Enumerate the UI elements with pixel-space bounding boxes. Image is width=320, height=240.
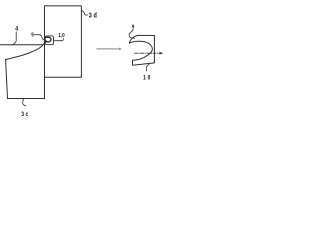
- detail box around seal: [45, 36, 53, 45]
- leader 3d: [82, 10, 88, 15]
- seal 9 compressed (small): [45, 37, 51, 42]
- pane 3c / 3d shared vertical edge: [44, 6, 46, 99]
- leader 3c: [23, 99, 26, 106]
- seal profile lip outer curve: [129, 35, 138, 43]
- leader 4: [13, 32, 16, 45]
- center line arrowhead: [160, 52, 164, 55]
- pane 3c top curved edge: [6, 41, 47, 59]
- svg-text:10: 10: [143, 75, 152, 82]
- center line dash-dot with arrow: [135, 52, 161, 54]
- leader 10 left: [54, 38, 64, 40]
- svg-text:4: 4: [15, 25, 18, 33]
- seal profile cavity curve: [130, 41, 152, 60]
- leader 9 right: [129, 30, 135, 39]
- svg-text:1,0: 1,0: [58, 33, 64, 40]
- pane 3c quadrilateral: [6, 60, 45, 99]
- svg-text:9: 9: [31, 32, 34, 39]
- glazing line 4: [0, 44, 42, 46]
- svg-text:9: 9: [132, 24, 135, 31]
- leader 9 left: [35, 35, 46, 40]
- svg-text:3c: 3c: [21, 112, 30, 119]
- transformation arrow: [97, 48, 120, 50]
- pane 3d rectangle: [45, 6, 82, 77]
- seal profile 9 enlarged: outline: [133, 35, 155, 65]
- leader 10 right: [147, 63, 150, 71]
- svg-text:3d: 3d: [89, 12, 99, 20]
